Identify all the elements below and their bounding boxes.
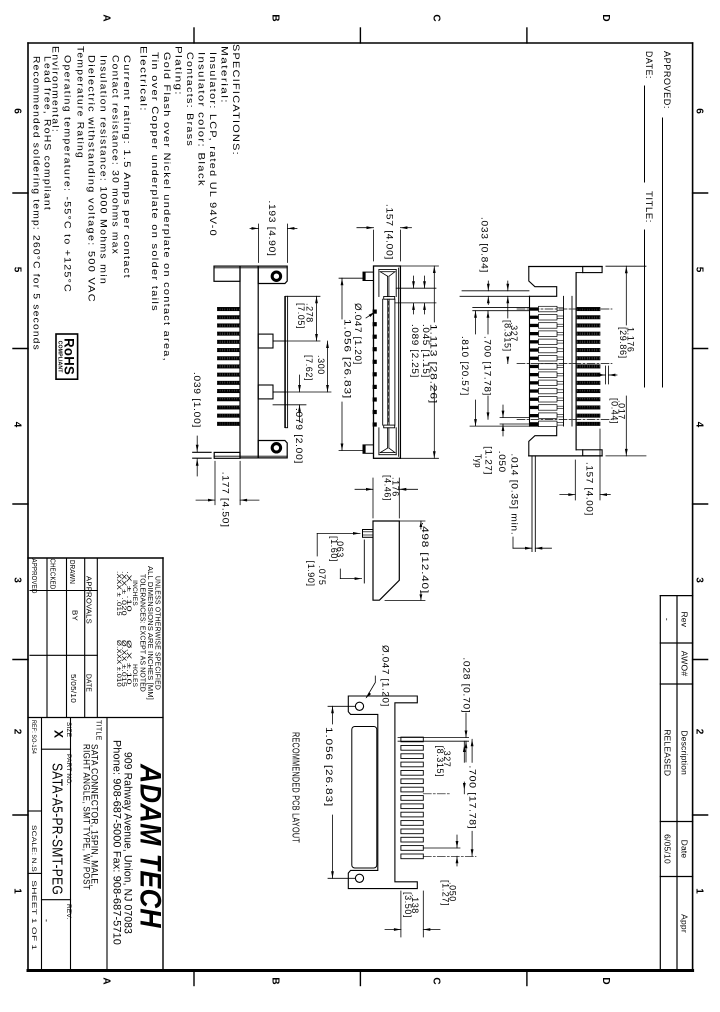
svg-text:5: 5 (12, 267, 23, 273)
svg-text:6: 6 (12, 108, 23, 114)
svg-text:APPROVALS: APPROVALS (85, 576, 92, 624)
svg-text:4: 4 (12, 422, 23, 428)
svg-text:Typ: Typ (473, 454, 483, 468)
svg-text:[3.50]: [3.50] (403, 892, 413, 918)
svg-text:.XXX ± .015: .XXX ± .015 (115, 571, 121, 617)
svg-text:4: 4 (694, 422, 705, 428)
svg-text:SPECIFICATIONS:: SPECIFICATIONS: (231, 44, 241, 156)
svg-text:Insulation resistance: 1000 Mo: Insulation resistance: 1000 Mohms min (99, 55, 109, 285)
svg-text:.079 [2.00]: .079 [2.00] (294, 408, 304, 464)
svg-text:.050: .050 (497, 451, 507, 473)
svg-text:.028 [0.70]: .028 [0.70] (462, 657, 472, 713)
svg-text:SATA-A5-PR-SMT-PEG: SATA-A5-PR-SMT-PEG (49, 763, 66, 895)
svg-text:RIGHT ANGLE, SMT TYPE, W/ POST: RIGHT ANGLE, SMT TYPE, W/ POST (81, 744, 92, 890)
svg-text:A: A (101, 977, 112, 984)
svg-text:Appr: Appr (680, 914, 690, 933)
svg-text:[1.60]: [1.60] (329, 536, 339, 562)
svg-text:.810 [20.57]: .810 [20.57] (460, 336, 470, 396)
svg-text:[8.315]: [8.315] (435, 746, 445, 778)
svg-text:.045 [1.15]: .045 [1.15] (421, 324, 431, 378)
svg-text:[7.05]: [7.05] (296, 303, 306, 329)
svg-text:3: 3 (694, 577, 705, 583)
svg-text:X: X (52, 730, 66, 738)
svg-text:.700 [17.78]: .700 [17.78] (483, 336, 493, 396)
svg-text:ADAM TECH: ADAM TECH (134, 763, 167, 929)
svg-text:RELEASED: RELEASED (663, 729, 673, 776)
svg-text:.089 [2.25]: .089 [2.25] (410, 324, 420, 378)
svg-text:UNLESS OTHERWISE SPECIFIED: UNLESS OTHERWISE SPECIFIED (154, 576, 161, 690)
svg-text:.700 [17.78]: .700 [17.78] (468, 765, 478, 829)
svg-text:5/05/10: 5/05/10 (69, 674, 76, 703)
svg-text:[1.90]: [1.90] (306, 561, 316, 587)
svg-text:.157 [4.00]: .157 [4.00] (585, 462, 595, 516)
svg-text:TOLERANCES: EXCEPT AS NOTED: TOLERANCES: EXCEPT AS NOTED (139, 574, 146, 692)
svg-text:[7.62]: [7.62] (304, 355, 314, 381)
svg-text:Operating temperature: -55°C t: Operating temperature: -55°C to +125°C (63, 55, 73, 293)
svg-text:1: 1 (12, 888, 23, 894)
svg-text:C: C (431, 14, 442, 21)
svg-text:RoHS: RoHS (62, 338, 78, 375)
svg-text:HOLES: HOLES (131, 664, 138, 688)
svg-text:[1.27]: [1.27] (440, 880, 450, 906)
svg-text:Temperature Rating: Temperature Rating (76, 46, 86, 159)
svg-text:.039 [1.00]: .039 [1.00] (192, 372, 202, 428)
svg-text:INCHES: INCHES (131, 580, 138, 606)
svg-text:SHEET 1 OF 1: SHEET 1 OF 1 (30, 880, 37, 950)
svg-text:Insulator color: Black: Insulator color: Black (197, 52, 207, 187)
svg-text:Dielectric withstanding voltag: Dielectric withstanding voltage: 500 VAC (87, 55, 97, 303)
svg-text:APPROVED: APPROVED (30, 559, 37, 594)
svg-text:RECOMMENDED PCB LAYOUT: RECOMMENDED PCB LAYOUT (290, 732, 301, 843)
svg-text:-: - (663, 618, 673, 621)
svg-text:.193 [4.90]: .193 [4.90] (267, 201, 277, 257)
svg-text:.300: .300 (316, 355, 326, 375)
svg-text:COMPLIANT: COMPLIANT (57, 341, 63, 373)
svg-text:2: 2 (12, 729, 23, 735)
svg-text:Electrical:: Electrical: (139, 46, 149, 112)
svg-text:AWO#: AWO# (680, 651, 690, 677)
svg-text:Gold Flash over Nickel underpl: Gold Flash over Nickel underplate on con… (162, 52, 172, 362)
svg-text:[4.46]: [4.46] (383, 475, 393, 501)
svg-text:CHECKED: CHECKED (49, 559, 56, 590)
svg-text:Rev: Rev (680, 611, 690, 627)
svg-text:REF: SO-154: REF: SO-154 (30, 720, 37, 754)
svg-text:.157 [4.00]: .157 [4.00] (385, 204, 395, 260)
svg-text:ALL DIMENSIONS ARE INCHES [MM]: ALL DIMENSIONS ARE INCHES [MM] (146, 566, 153, 700)
svg-text:.033 [0.84]: .033 [0.84] (480, 217, 490, 273)
svg-text:Contact resistance: 30 mohms m: Contact resistance: 30 mohms max (111, 55, 121, 255)
svg-text:.177 [4.50]: .177 [4.50] (221, 472, 231, 528)
svg-text:2: 2 (694, 729, 705, 735)
svg-text:REV.: REV. (65, 904, 72, 919)
svg-text:D: D (600, 14, 611, 21)
svg-text:APPROVED:: APPROVED: (661, 51, 672, 109)
svg-text:Ø.047 [1.20]: Ø.047 [1.20] (380, 645, 390, 707)
svg-text:BY: BY (71, 610, 78, 621)
svg-text:3: 3 (12, 577, 23, 583)
svg-text:Ø.XXX ±.010: Ø.XXX ±.010 (115, 640, 121, 688)
svg-text:C: C (431, 977, 442, 984)
svg-text:Recommended soldering temp: 26: Recommended soldering temp: 260°C for 5 … (32, 56, 42, 351)
svg-text:Plating:: Plating: (174, 46, 184, 96)
svg-text:6/05/10: 6/05/10 (663, 834, 673, 864)
svg-text:B: B (270, 977, 281, 984)
svg-text:[8.315]: [8.315] (503, 320, 513, 352)
svg-text:SCALE: N.S: SCALE: N.S (30, 825, 37, 873)
svg-text:Ø.047 [1.20]: Ø.047 [1.20] (353, 303, 363, 365)
svg-text:Contacts: Brass: Contacts: Brass (185, 52, 195, 147)
svg-text:5: 5 (694, 267, 705, 273)
svg-text:D: D (600, 977, 611, 984)
svg-text:[1.27]: [1.27] (483, 446, 493, 475)
svg-text:TITLE: TITLE (95, 720, 102, 741)
svg-text:Description: Description (680, 730, 690, 775)
svg-text:Phone: 908-687-5000 Fax: 908-6: Phone: 908-687-5000 Fax: 908-687-5710 (111, 740, 123, 945)
svg-text:-: - (42, 919, 52, 922)
svg-text:DATE:: DATE: (643, 51, 654, 79)
svg-text:TITLE:: TITLE: (643, 191, 654, 223)
svg-text:DRAWN: DRAWN (68, 560, 75, 584)
svg-text:1.056 [26.83]: 1.056 [26.83] (343, 319, 353, 399)
svg-text:[0.44]: [0.44] (610, 398, 620, 424)
svg-text:1.056 [26.83]: 1.056 [26.83] (324, 727, 334, 807)
svg-text:.075: .075 (317, 566, 327, 586)
svg-text:DATE: DATE (85, 674, 92, 692)
svg-text:Date: Date (680, 840, 690, 859)
svg-text:.498 [12.40]: .498 [12.40] (420, 522, 430, 594)
svg-text:B: B (270, 14, 281, 21)
svg-text:1: 1 (694, 888, 705, 894)
svg-text:Insulator: LCP, rated UL 94V-: Insulator: LCP, rated UL 94V-0 (208, 52, 218, 237)
svg-text:A: A (101, 14, 112, 21)
svg-text:Lead free, RoHS compliant: Lead free, RoHS compliant (43, 56, 53, 211)
svg-text:6: 6 (694, 108, 705, 114)
svg-text:[29.86]: [29.86] (618, 327, 628, 359)
svg-text:Material:: Material: (220, 46, 230, 104)
svg-text:Tin over Copper underplate on: Tin over Copper underplate on solder tai… (150, 52, 160, 312)
svg-text:.014 [0.35] min.: .014 [0.35] min. (510, 453, 520, 535)
svg-text:Current rating: 1.5 Amps per c: Current rating: 1.5 Amps per contact (122, 55, 132, 279)
